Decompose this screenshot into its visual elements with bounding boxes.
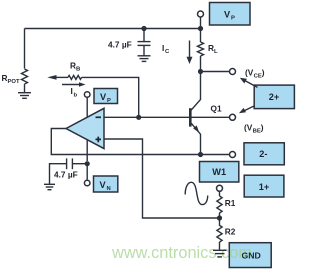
svg-text:V: V xyxy=(100,92,107,102)
label box VP top xyxy=(210,3,251,26)
svg-text:b: b xyxy=(74,93,78,99)
label box 2+ xyxy=(254,85,294,109)
svg-text:R1: R1 xyxy=(225,198,236,208)
wire collector node to VCE terminal xyxy=(203,71,230,73)
wire supply down through op-amp xyxy=(86,97,88,161)
label box 2- xyxy=(244,143,284,165)
wire RL bottom lead xyxy=(200,56,202,72)
node: junction of top rail and C1 xyxy=(141,26,146,31)
wire Rpot to ground xyxy=(24,84,26,93)
svg-text:CE: CE xyxy=(254,74,262,80)
svg-text:(V: (V xyxy=(245,68,254,78)
wire base rail: op-amp minus input to VBE terminal xyxy=(104,116,230,118)
svg-text:2-: 2- xyxy=(259,149,267,159)
resistor RPOT xyxy=(22,69,28,84)
svg-text:I: I xyxy=(162,43,164,53)
svg-text:C: C xyxy=(165,49,170,55)
svg-text:www.cntronics.com: www.cntronics.com xyxy=(111,243,252,262)
node: collector node xyxy=(198,69,203,74)
wire C1 bottom lead xyxy=(143,45,145,55)
wire top rail from left corner to Vp node xyxy=(25,28,201,30)
ground under R2 xyxy=(213,250,227,257)
label RL xyxy=(208,43,218,55)
terminal circle 2- scope xyxy=(230,152,236,158)
node: supply/C2 junction xyxy=(85,161,90,166)
capacitor C2 4.7uF plates xyxy=(67,158,73,169)
svg-text:1+: 1+ xyxy=(259,182,269,192)
svg-text:P: P xyxy=(231,16,235,22)
svg-text:BE: BE xyxy=(253,129,261,135)
terminal circle VBE xyxy=(230,114,236,120)
node: RB to base rail junction xyxy=(136,115,141,120)
node: Vp rail junction xyxy=(198,26,203,31)
current arrow IC xyxy=(187,41,193,65)
svg-text:4.7 µF: 4.7 µF xyxy=(54,169,78,179)
wire RL top lead xyxy=(200,29,202,43)
sine wave symbol xyxy=(185,182,208,204)
svg-text:V: V xyxy=(224,10,231,20)
label RB xyxy=(70,61,80,73)
svg-text:): ) xyxy=(261,123,264,133)
svg-text:Q1: Q1 xyxy=(211,104,222,114)
svg-text:(V: (V xyxy=(244,123,253,133)
svg-text:V: V xyxy=(100,180,107,190)
wire C1 top lead xyxy=(143,29,145,42)
resistor RL xyxy=(198,42,204,56)
label IC xyxy=(162,43,170,55)
transistor Q1 xyxy=(190,72,200,155)
svg-text:B: B xyxy=(76,67,80,73)
current arrow Ib xyxy=(62,82,86,86)
svg-text:POT: POT xyxy=(8,79,21,85)
svg-text:L: L xyxy=(214,49,218,55)
ground under C1 xyxy=(138,56,151,62)
wire R2 to ground xyxy=(219,242,221,250)
label Ib xyxy=(71,86,78,99)
svg-text:): ) xyxy=(262,68,265,78)
terminal circle VCE xyxy=(230,69,236,75)
wire C2 right lead xyxy=(72,163,87,165)
wire W1 to R1 xyxy=(219,191,221,196)
terminal circle VN xyxy=(84,180,90,186)
label box W1 xyxy=(200,162,239,183)
wire left vertical down to Rpot xyxy=(24,29,26,69)
wire plus input to R1/R2 node xyxy=(104,139,220,218)
svg-text:W1: W1 xyxy=(212,167,226,177)
node: R1/R2 feedback node xyxy=(217,215,222,220)
svg-text:P: P xyxy=(107,98,111,104)
label (VBE) xyxy=(244,123,264,135)
resistor R2 xyxy=(217,218,222,242)
svg-text:N: N xyxy=(107,186,111,192)
resistor R1 xyxy=(217,196,222,218)
wire op-amp output loop xyxy=(51,129,229,155)
terminal circle op-amp V+ supply xyxy=(84,92,90,98)
label RPOT xyxy=(2,73,21,85)
svg-text:GND: GND xyxy=(242,250,261,260)
op-amp U1 xyxy=(66,108,104,148)
label (VCE) xyxy=(245,68,265,80)
wire C2 left lead to ground xyxy=(50,164,67,185)
label box GND xyxy=(229,243,271,268)
svg-text:I: I xyxy=(71,86,73,96)
label box VP small xyxy=(94,89,118,104)
svg-text:R2: R2 xyxy=(225,227,236,237)
resistor RB with wiper arrow xyxy=(47,75,138,117)
wire Vp terminal to rail xyxy=(200,17,202,29)
capacitor C1 4.7uF plates xyxy=(138,42,151,46)
node: emitter to output rail junction xyxy=(198,152,203,157)
svg-text:2+: 2+ xyxy=(269,92,279,102)
terminal circle W1 xyxy=(217,185,223,191)
terminal circle Vp top xyxy=(198,11,204,17)
ground under C2 xyxy=(44,184,55,189)
arrow 2+ to VCE xyxy=(240,78,258,88)
arrow 2+ to VBE xyxy=(239,106,255,114)
wire supply to VN terminal xyxy=(86,164,88,181)
label box 1+ xyxy=(244,175,284,197)
ground under RPOT xyxy=(18,93,31,99)
label box VN small xyxy=(94,176,118,192)
svg-text:4.7 µF: 4.7 µF xyxy=(108,40,132,50)
